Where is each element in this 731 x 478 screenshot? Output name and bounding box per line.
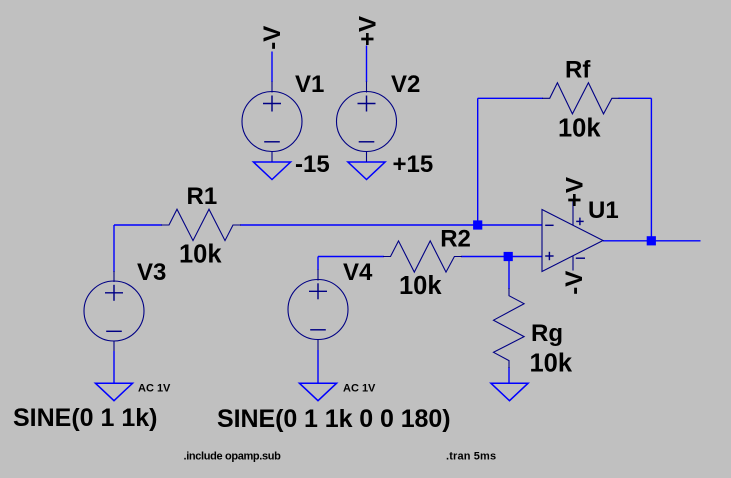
svg-text:R2: R2: [440, 226, 471, 253]
svg-text:10k: 10k: [399, 272, 442, 300]
svg-text:+V: +V: [355, 16, 382, 46]
svg-text:R1: R1: [187, 183, 218, 210]
svg-text:V3: V3: [137, 259, 166, 286]
svg-text:Rg: Rg: [531, 320, 563, 347]
svg-text:AC 1V: AC 1V: [343, 382, 376, 394]
svg-text:AC 1V: AC 1V: [138, 382, 171, 394]
svg-text:10k: 10k: [530, 350, 573, 378]
svg-text:+V: +V: [562, 177, 589, 207]
svg-text:V2: V2: [391, 71, 420, 98]
svg-text:U1: U1: [588, 197, 619, 224]
svg-text:-15: -15: [295, 151, 330, 178]
svg-text:.tran 5ms: .tran 5ms: [446, 450, 496, 462]
svg-text:Rf: Rf: [565, 57, 591, 84]
svg-text:SINE(0 1 1k 0 0 180): SINE(0 1 1k 0 0 180): [217, 405, 450, 433]
svg-text:10k: 10k: [179, 241, 222, 269]
svg-text:.include opamp.sub: .include opamp.sub: [184, 450, 282, 462]
svg-text:+15: +15: [393, 151, 434, 178]
svg-text:V4: V4: [343, 259, 373, 286]
svg-text:-V: -V: [259, 26, 286, 50]
svg-text:10k: 10k: [558, 115, 601, 143]
svg-text:V1: V1: [295, 71, 324, 98]
svg-text:SINE(0 1 1k): SINE(0 1 1k): [13, 404, 158, 432]
svg-text:-V: -V: [561, 271, 588, 295]
